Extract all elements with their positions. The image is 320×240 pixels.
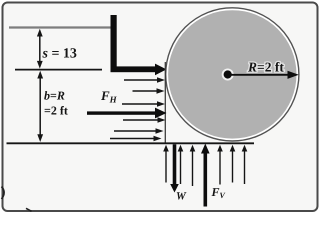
- wall horizontal thick arrow: [111, 64, 167, 76]
- pressure arrow h1: [124, 77, 165, 83]
- floor up arrow v4: [217, 145, 223, 185]
- floor up arrow v1: [163, 145, 169, 183]
- floor up arrow v6: [242, 145, 248, 184]
- wall vertical bar: [111, 15, 117, 72]
- force arrow F_H (thick): [87, 108, 167, 119]
- stray paren mark: [2, 187, 5, 200]
- svg-text:s = 13: s = 13: [42, 47, 77, 62]
- floor up arrow v5: [230, 145, 236, 183]
- pressure arrow h4: [123, 117, 166, 123]
- svg-text:R=2 ft: R=2 ft: [247, 60, 284, 75]
- pressure arrow h3: [122, 101, 165, 107]
- floor up arrow v2: [178, 145, 184, 184]
- stray tick mark: [26, 208, 32, 211]
- pressure arrow h2: [133, 88, 165, 94]
- radius arrow R: [231, 71, 299, 79]
- floor line: [7, 142, 255, 144]
- dimension arrow b (double headed): [37, 71, 43, 142]
- weight arrow W (thick down): [170, 144, 179, 192]
- dimension arrow s (double headed): [37, 29, 43, 69]
- cylinder circle: [166, 8, 299, 141]
- pressure arrow h6: [110, 136, 162, 142]
- svg-text:=2 ft: =2 ft: [44, 104, 68, 118]
- svg-text:W: W: [176, 191, 187, 203]
- force arrow F_v (thick up): [201, 144, 210, 207]
- svg-text:b=R: b=R: [44, 89, 65, 103]
- s dimension line (lower): [15, 69, 102, 71]
- pressure arrow h5: [114, 128, 164, 134]
- center dot: [222, 69, 234, 81]
- water surface line: [9, 26, 112, 28]
- vertical projection line: [164, 62, 166, 143]
- floor up arrow v3: [190, 145, 196, 186]
